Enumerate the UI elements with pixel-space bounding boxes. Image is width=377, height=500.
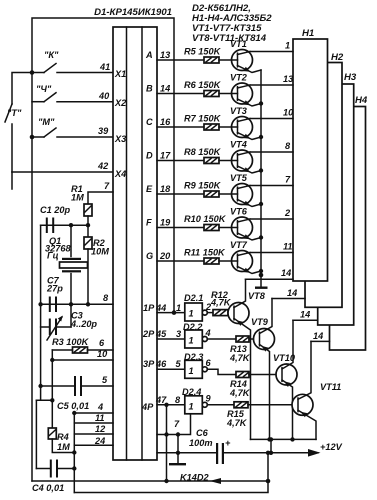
svg-text:7: 7: [104, 181, 110, 191]
svg-text:+12V: +12V: [320, 442, 343, 452]
svg-text:100m: 100m: [189, 438, 213, 448]
svg-text:R4: R4: [57, 432, 69, 442]
resistor R11 150K: [184, 248, 232, 265]
node VT9 emitter rail: [267, 437, 271, 441]
wire top rail from switch common to 1P net: [32, 18, 174, 313]
svg-text:1: 1: [176, 303, 181, 313]
transistor VT2: [230, 73, 261, 107]
svg-text:"К": "К": [44, 50, 59, 60]
svg-text:R9 150K: R9 150K: [184, 181, 222, 191]
svg-text:B: B: [146, 84, 153, 94]
node R4 top: [50, 398, 54, 402]
svg-text:VT8: VT8: [248, 291, 266, 301]
wire 4P to D2.4: [157, 404, 185, 406]
svg-text:10M: 10M: [91, 247, 109, 257]
wire bottom rail: [74, 453, 268, 493]
wire H1 segment pin 11: [250, 252, 293, 254]
svg-text:6: 6: [99, 338, 105, 348]
resistor R6 150K: [184, 80, 232, 97]
svg-text:4: 4: [97, 402, 103, 412]
svg-text:3P: 3P: [143, 359, 155, 369]
svg-text:R6 150K: R6 150K: [184, 80, 222, 90]
svg-text:2: 2: [284, 208, 291, 218]
svg-text:45: 45: [155, 329, 167, 339]
resistor R2 10M: [84, 225, 109, 304]
svg-text:1M: 1M: [71, 193, 84, 203]
svg-text:10: 10: [283, 108, 294, 118]
node rail junction VT9: [269, 451, 273, 455]
inverter D2.2: [176, 322, 211, 348]
wire R3 left drop: [51, 350, 53, 400]
ground stub D2: [169, 435, 186, 466]
segment G pin 20 wire: [157, 260, 204, 262]
wire H1 segment pin 7: [250, 185, 293, 187]
svg-text:13: 13: [283, 74, 293, 84]
node emitter rail junction: [259, 235, 263, 239]
resistor R8 150K: [184, 147, 232, 164]
transistor VT3: [230, 106, 261, 140]
wire +12V rail left of C6: [157, 452, 216, 454]
svg-text:X1: X1: [114, 69, 126, 79]
transistor VT6: [230, 207, 261, 241]
switch M: [32, 117, 113, 137]
svg-text:8: 8: [175, 395, 181, 405]
svg-text:R8 150K: R8 150K: [184, 147, 222, 157]
svg-text:H4: H4: [355, 95, 368, 106]
node VT10 emitter rail: [290, 437, 294, 441]
resistor R9 150K: [184, 181, 232, 198]
wire common emitter rail: [260, 70, 262, 275]
svg-text:11: 11: [283, 242, 293, 252]
wire 3P to D2.3: [157, 368, 185, 370]
svg-text:C5 0,01: C5 0,01: [57, 401, 89, 411]
wire H2 pin 14: [272, 298, 305, 300]
svg-text:X2: X2: [114, 98, 127, 108]
svg-text:VT2: VT2: [230, 73, 248, 83]
capacitor C4 0,01: [32, 460, 74, 494]
switch K: [32, 50, 113, 73]
svg-text:D2.1: D2.1: [184, 293, 203, 303]
wire pin 12: [74, 433, 113, 435]
svg-text:VT4: VT4: [230, 140, 247, 150]
svg-text:X3: X3: [114, 134, 126, 144]
wire emitter bus to rail: [270, 439, 272, 452]
wire X4 pin 42: [12, 171, 113, 173]
segment B pin 14 wire: [157, 93, 204, 95]
svg-text:A: A: [145, 50, 153, 60]
svg-text:14: 14: [160, 84, 170, 94]
svg-text:+: +: [225, 438, 231, 448]
node junction M branch: [30, 135, 35, 140]
crystal Q1 32768 Hz: [45, 236, 88, 304]
node pin7 wire B: [176, 432, 180, 436]
svg-text:19: 19: [160, 218, 171, 228]
svg-text:44: 44: [155, 303, 166, 313]
svg-text:4,7K: 4,7K: [226, 418, 248, 428]
node crystal bottom: [69, 302, 73, 306]
resistor R5 150K: [184, 47, 232, 64]
capacitor C7 27p: [46, 276, 63, 313]
resistor R14 4,7K: [207, 369, 282, 398]
node emitter bus junction: [269, 437, 273, 441]
svg-text:12: 12: [95, 424, 106, 434]
node K14D2 branch: [164, 479, 168, 483]
display H4: [330, 95, 368, 350]
svg-text:17: 17: [160, 151, 171, 161]
svg-text:VT3: VT3: [230, 106, 247, 116]
wire rail B upper: [40, 225, 42, 400]
capacitor C1 20p: [40, 205, 71, 233]
svg-text:VT9: VT9: [251, 317, 269, 327]
node crystal top: [69, 223, 73, 227]
svg-text:1: 1: [285, 41, 290, 51]
svg-text:R10 150K: R10 150K: [184, 214, 227, 224]
wire 4P branch down to K14D2: [166, 405, 168, 481]
wire rail B jog: [36, 400, 40, 468]
svg-text:R7 150K: R7 150K: [184, 114, 222, 124]
inverter D2.1: [176, 293, 212, 321]
display H1: [293, 28, 328, 281]
node C4 bus: [72, 466, 76, 470]
wire pin 7 to R1: [88, 192, 113, 204]
capacitor C5 0,01: [38, 376, 113, 411]
svg-text:20: 20: [159, 251, 171, 261]
wire left bus vertical: [73, 413, 75, 493]
wire pin 4: [74, 412, 113, 414]
display H3: [318, 72, 357, 325]
svg-text:14: 14: [281, 268, 291, 278]
svg-text:C6: C6: [196, 428, 209, 438]
svg-text:VT1: VT1: [230, 39, 247, 49]
node emitter rail bottom: [259, 273, 264, 278]
wire left stub below 42 wire: [11, 172, 13, 189]
svg-text:F: F: [146, 218, 152, 228]
svg-text:1: 1: [189, 366, 194, 376]
svg-text:14: 14: [300, 310, 310, 320]
node pin4 bus: [72, 411, 76, 415]
wire H4 pin 14: [311, 340, 330, 342]
svg-text:X4: X4: [114, 169, 126, 179]
svg-text:D: D: [146, 151, 153, 161]
transistor VT8: [228, 279, 266, 439]
svg-text:46: 46: [155, 359, 167, 369]
svg-text:H2: H2: [331, 52, 344, 63]
wire H3 pin 14: [293, 319, 318, 321]
parts list note: [192, 3, 272, 44]
svg-text:16: 16: [160, 117, 171, 127]
svg-text:14: 14: [313, 331, 323, 341]
node ground stem on rail: [176, 451, 180, 455]
node 4P branch: [164, 403, 168, 407]
transistor VT11: [292, 341, 341, 439]
svg-text:VT11: VT11: [320, 382, 341, 392]
wire D2 pin7 from chip: [157, 414, 191, 435]
node pin10/R3: [50, 358, 54, 362]
svg-text:5: 5: [176, 359, 182, 369]
resistor R15 4,7K: [207, 402, 298, 428]
node junction K-switch common: [30, 70, 35, 75]
svg-text:G: G: [146, 251, 153, 261]
node pin7 wire A: [164, 432, 168, 436]
svg-text:7: 7: [285, 175, 291, 185]
svg-text:40: 40: [98, 91, 110, 101]
svg-text:6: 6: [206, 358, 212, 368]
svg-text:41: 41: [99, 62, 110, 72]
svg-text:4P: 4P: [141, 402, 154, 412]
svg-text:9: 9: [206, 394, 212, 404]
resistor R4 1M: [48, 400, 74, 452]
svg-text:E: E: [146, 184, 153, 194]
node R2 bottom: [86, 302, 90, 306]
ground stub emitter rail: [255, 275, 268, 289]
svg-text:18: 18: [160, 184, 171, 194]
svg-text:14: 14: [287, 288, 297, 298]
wire pin 8 net: [41, 303, 113, 305]
transistor VT5: [230, 173, 261, 207]
resistor R12 4,7K: [207, 290, 234, 316]
segment C pin 16 wire: [157, 126, 204, 128]
switch Ch: [32, 84, 113, 102]
wire R4 top net: [36, 399, 52, 401]
svg-text:VT5: VT5: [230, 173, 248, 183]
svg-text:Гц: Гц: [47, 251, 59, 261]
wire H1 segment pin 8: [250, 151, 293, 153]
svg-text:4,7K: 4,7K: [229, 388, 251, 398]
svg-text:1M: 1M: [57, 442, 70, 452]
svg-text:1P: 1P: [143, 303, 155, 313]
svg-text:1: 1: [189, 309, 194, 319]
node emitter rail junction: [259, 135, 263, 139]
wire H1 segment pin 13: [250, 84, 293, 86]
transistor VT10: [273, 320, 297, 439]
wire pin 10: [52, 359, 113, 361]
svg-text:7: 7: [174, 419, 180, 429]
svg-text:R3 100K: R3 100K: [52, 337, 90, 347]
transistor VT4: [230, 140, 261, 174]
node emitter rail junction: [259, 269, 263, 273]
wire H1 segment pin 10: [250, 118, 293, 120]
svg-text:24: 24: [94, 436, 105, 446]
svg-text:11: 11: [95, 413, 105, 423]
node rail junction K14D2: [266, 451, 270, 455]
svg-text:4,7K: 4,7K: [229, 353, 251, 363]
svg-text:R5 150K: R5 150K: [184, 47, 222, 57]
svg-text:10: 10: [97, 349, 108, 359]
node emitter rail junction: [259, 202, 263, 206]
wire H1 segment pin 1: [250, 51, 293, 53]
resistor R3 100K: [52, 337, 113, 353]
svg-text:39: 39: [98, 126, 109, 136]
svg-text:C1 20p: C1 20p: [40, 205, 71, 215]
svg-text:C4 0,01: C4 0,01: [32, 483, 64, 493]
svg-text:H1: H1: [302, 28, 314, 39]
node K14D2 junction: [266, 479, 271, 484]
node R1/R2/C1: [86, 223, 90, 227]
wire 1P to D2.1: [157, 312, 185, 314]
resistor R7 150K: [184, 114, 232, 131]
svg-text:27p: 27p: [46, 284, 63, 294]
wire K14D2: [32, 473, 268, 485]
svg-text:4,7K: 4,7K: [210, 298, 232, 308]
wire H1 pin 14 from VT8 collector: [246, 278, 294, 280]
segment F pin 19 wire: [157, 227, 204, 229]
resistor R1 1M: [71, 184, 92, 225]
node 1P rail: [172, 310, 177, 315]
wire crystal top: [70, 225, 72, 256]
svg-text:3: 3: [176, 329, 181, 339]
resistor R13 4,7K: [207, 336, 259, 363]
node emitter rail junction: [259, 168, 263, 172]
segment D pin 17 wire: [157, 160, 204, 162]
wire switch common left branch: [12, 73, 32, 105]
wire +12V rail with arrow: [224, 442, 343, 457]
transistor VT9: [251, 299, 275, 440]
svg-text:1: 1: [189, 401, 194, 411]
svg-text:4..20p: 4..20p: [70, 319, 97, 329]
transistor VT7: [230, 240, 261, 274]
wire pin 11: [74, 422, 113, 424]
svg-text:R11 150K: R11 150K: [184, 248, 226, 258]
svg-text:8: 8: [103, 293, 109, 303]
wire emitter bus VT8-VT11: [251, 438, 317, 440]
wire pin 24: [74, 444, 113, 446]
trimmer capacitor C3 4..20p: [41, 304, 98, 340]
svg-text:8: 8: [285, 141, 291, 151]
switch T: [5, 104, 22, 172]
wire H1 segment pin 2: [250, 218, 293, 220]
IC D1 body: [113, 27, 157, 460]
segment A pin 13 wire: [157, 59, 204, 61]
svg-text:13: 13: [160, 50, 170, 60]
inverter D2.3: [176, 352, 212, 378]
wire oscillator top net: [41, 224, 88, 226]
node R4 bottom: [72, 450, 76, 454]
svg-text:H3: H3: [344, 72, 357, 83]
display H2: [305, 52, 344, 307]
transistor VT1: [230, 39, 261, 73]
inverter D2.4: [175, 387, 212, 414]
svg-text:1: 1: [189, 336, 194, 346]
svg-text:VT6: VT6: [230, 207, 248, 217]
svg-text:5: 5: [102, 375, 108, 385]
svg-text:4: 4: [205, 328, 211, 338]
wire rail A down from K dot through Ch,M to bottom: [31, 73, 33, 482]
svg-text:D1-КР145ИК1901: D1-КР145ИК1901: [94, 7, 172, 18]
resistor R10 150K: [184, 214, 232, 231]
svg-text:"Ч": "Ч": [36, 84, 52, 94]
svg-text:42: 42: [97, 161, 109, 171]
svg-text:"М": "М": [38, 117, 55, 127]
svg-text:K14D2: K14D2: [180, 473, 209, 483]
svg-text:C: C: [146, 117, 153, 127]
node emitter rail junction: [259, 101, 263, 105]
capacitor C6 100m: [189, 428, 231, 464]
svg-text:2P: 2P: [142, 329, 155, 339]
wire 2P to D2.2: [157, 338, 185, 340]
node C7 rail: [38, 302, 42, 306]
svg-text:VT7: VT7: [230, 240, 248, 250]
segment E pin 18 wire: [157, 193, 204, 195]
